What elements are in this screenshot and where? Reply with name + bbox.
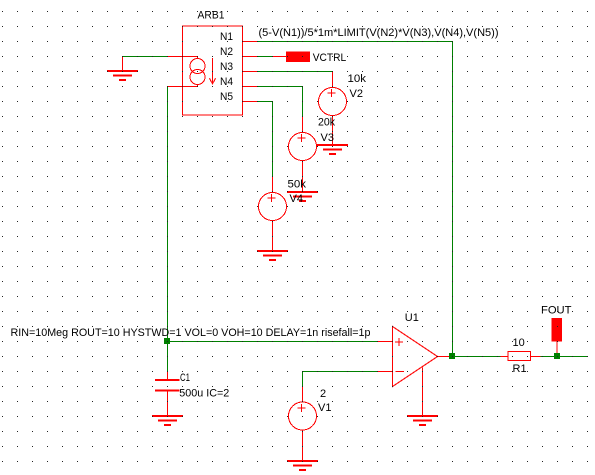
pin N1 (220, 31, 258, 43)
jumper FOUT (541, 305, 572, 357)
ground (V3 minus) (287, 191, 318, 202)
node junction (input node) (164, 338, 170, 344)
wire (N2 to VCTRL) (258, 56, 273, 58)
wire (input node down to C1) (167, 342, 169, 372)
wire (input node to op-amp + input) (168, 341, 378, 343)
node junction (FOUT node) (554, 353, 560, 359)
ground (V1 minus) (287, 460, 318, 471)
pin N3 (220, 61, 258, 73)
wire (N3 to V2) (258, 71, 333, 73)
wire (N4 to V3) (258, 87, 303, 118)
current direction arrow (209, 58, 215, 85)
wire (N5 to V4) (258, 102, 273, 177)
jumper VCTRL (273, 51, 347, 64)
controlled current source (inside ARB1) (168, 57, 206, 87)
ground (top left, at ARB1 left pin net) (107, 56, 138, 81)
wire (123, 56, 168, 58)
wire (N1 to output node) (258, 42, 453, 357)
op-amp U1 (377, 312, 453, 417)
wire (ARB1 lower-left pin down to input node) (167, 87, 169, 342)
voltage source V3 (289, 117, 336, 193)
ground (V2 minus) (317, 144, 348, 155)
node junction (op-amp output) (449, 353, 455, 359)
wire (output node to R1) (453, 356, 501, 358)
voltage source V2 (319, 72, 367, 147)
pin N5 (220, 91, 258, 103)
pin N4 (220, 76, 258, 88)
capacitor C1 (155, 372, 229, 417)
voltage source V4 (259, 177, 307, 252)
ground (op-amp) (407, 415, 438, 426)
ground (V4 minus) (257, 250, 288, 261)
ground (C1 bottom) (152, 415, 183, 426)
wire (R1 to FOUT node and beyond) (541, 356, 589, 358)
macro block ARB1 (183, 26, 243, 115)
pin N2 (220, 46, 258, 58)
resistor R1 (501, 337, 541, 375)
voltage source V1 (289, 372, 378, 462)
